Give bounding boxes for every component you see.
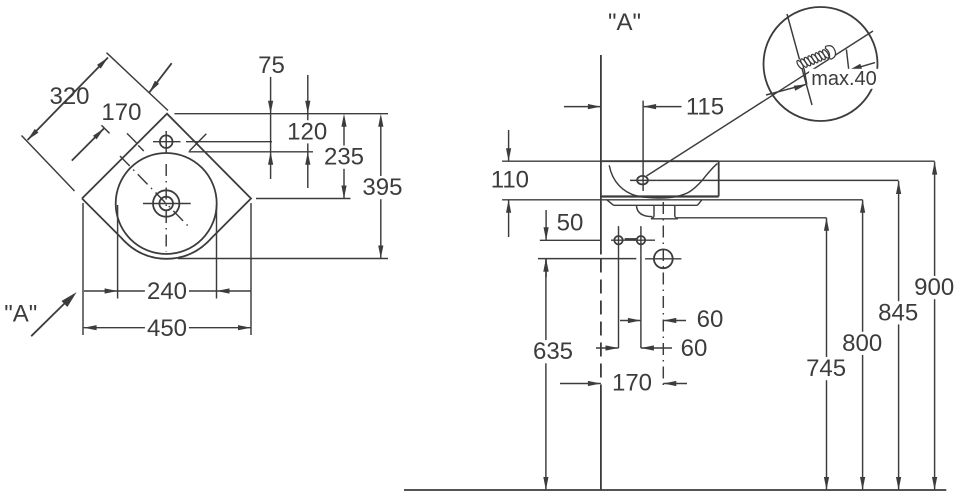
trap cover curve: [636, 205, 652, 216]
tap height reference line (y=180.4): [656, 179, 898, 181]
dimension label 320: [49, 83, 89, 110]
supply hole centerline horizontal: [645, 258, 681, 260]
floor line: [404, 489, 946, 491]
tap hole (front view): [637, 176, 648, 185]
svg-text:115: 115: [686, 93, 724, 120]
svg-text:max.40: max.40: [811, 68, 877, 90]
edge tick mark near 170 arrow: [102, 125, 110, 133]
dimension line 450 (horizontal): [84, 325, 251, 330]
dimension line max.40: [766, 63, 875, 95]
dimension label 235: [322, 144, 366, 171]
drain outer circle (plan view): [153, 190, 179, 216]
fixing hole right centerline vertical: [640, 226, 642, 254]
svg-text:635: 635: [533, 338, 573, 365]
dimension label 395: [360, 174, 404, 201]
svg-text:450: 450: [147, 315, 187, 342]
tap hole centerline vertical (front view): [642, 101, 644, 191]
tap hole centerline horizontal: [153, 141, 181, 143]
svg-text:120: 120: [287, 118, 327, 145]
svg-text:235: 235: [324, 144, 364, 171]
svg-text:75: 75: [258, 52, 285, 79]
svg-text:"A": "A": [608, 9, 641, 36]
svg-text:110: 110: [491, 167, 529, 194]
tap hole centerline vertical: [165, 131, 167, 153]
dimension line 395 (vertical): [378, 114, 383, 259]
svg-text:170: 170: [101, 99, 141, 126]
supply hole line (y=258.6): [538, 258, 636, 260]
basin front edge arc (plan view): [121, 237, 213, 259]
dimension line 170 (front view horizontal): [560, 381, 687, 386]
fixing hole left centerline vertical: [618, 226, 620, 254]
drain inner circle (plan view): [159, 197, 173, 211]
diagonal dash near tap (left): [127, 133, 144, 151]
dimension line 170 (diagonal, two arrows): [72, 63, 172, 160]
view arrow A (plan view): [31, 292, 76, 336]
dimension label 170 (front view): [610, 370, 654, 397]
dimension line 240 (horizontal): [84, 288, 251, 293]
reference line basin front (y=258.5): [178, 258, 388, 260]
mounting skirt (front view): [607, 200, 702, 206]
dimension line 115 (horizontal): [564, 104, 682, 109]
dimension line 800 (vertical): [860, 200, 865, 490]
svg-text:60: 60: [697, 306, 724, 333]
label "A" (plan view): [4, 301, 37, 328]
extension line left corner down (x=83): [82, 203, 84, 335]
svg-text:800: 800: [842, 330, 882, 357]
dimension line 900 (vertical): [932, 162, 937, 490]
reference line through tap hole (y=141.7): [186, 141, 272, 143]
dimension label 75: [256, 52, 287, 79]
extension line bowl left (x=117.6): [117, 205, 119, 299]
extension line from left fixing hole: [618, 254, 620, 348]
dimension label 120: [285, 118, 329, 145]
reference line through wall corner (y=113.7): [175, 113, 389, 115]
leader line to detail A: [647, 31, 874, 176]
basin outline (plan view, corner washbasin): [82, 114, 251, 237]
dimension line 110 (vertical): [506, 130, 511, 237]
svg-text:50: 50: [557, 209, 584, 236]
extension line screw tip: [803, 64, 807, 84]
diagonal symmetry centerline through drain: [120, 156, 190, 228]
fixing hole right (front view): [637, 236, 645, 244]
dimension line 60 upper (horizontal): [620, 318, 686, 323]
fixing hole line (y=240.3 left of wall): [540, 239, 601, 241]
svg-text:170: 170: [612, 370, 652, 397]
extension line from right fixing hole: [640, 254, 642, 348]
svg-text:745: 745: [806, 355, 846, 382]
dimension line 845 (vertical): [896, 181, 901, 490]
svg-text:240: 240: [147, 278, 187, 305]
svg-text:845: 845: [878, 299, 918, 326]
dimension line 120 (vertical): [305, 75, 310, 188]
extension line right corner down (x=251): [250, 203, 252, 335]
dimension label 635: [531, 338, 575, 365]
fixing holes centerline horizontal: [611, 238, 655, 241]
extension line bowl right (x=216.5): [216, 205, 218, 299]
dimension label 900: [912, 274, 956, 301]
svg-text:60: 60: [681, 335, 708, 362]
basin body (front view): [601, 161, 719, 196]
drain centerline horizontal: [143, 203, 191, 205]
dimension line 75 (vertical): [268, 76, 273, 179]
reference line bowl rear tangent (y=151.8): [189, 151, 313, 153]
dimension label 170: [101, 99, 141, 126]
drain centerline vertical dash-dot (front view): [662, 202, 664, 390]
svg-text:395: 395: [362, 174, 402, 201]
dimension line 320 (diagonal): [28, 58, 109, 141]
dimension label 745: [804, 355, 848, 382]
extension line from top corner (45 deg): [107, 53, 169, 111]
bowl section curve (front view): [609, 164, 717, 198]
wall line (front view): [600, 55, 602, 490]
dimension label 50: [557, 209, 584, 236]
supply hole (front view): [654, 249, 673, 268]
drain centerline vertical dash-dot: [165, 164, 167, 252]
dimension label 800: [840, 330, 884, 357]
label "A" (front view): [608, 9, 641, 36]
dimension line 745 (vertical): [824, 218, 829, 490]
dimension label 60 upper: [697, 306, 724, 333]
extension line screw head: [846, 49, 848, 70]
bowl circle (plan view): [116, 153, 217, 254]
underside line (y=199.8, extends to 800 dim): [502, 199, 862, 201]
fixing hole left (front view): [614, 236, 622, 244]
drain pipe stub: [651, 205, 678, 219]
svg-text:900: 900: [914, 274, 954, 301]
basin top rim line (extends to 900 dim): [502, 160, 934, 162]
tap hole centerline horizontal (front view): [630, 179, 656, 181]
dimension line 60 lower (horizontal): [596, 345, 672, 350]
dimension label 240: [145, 278, 189, 305]
tap hole (plan view): [160, 135, 173, 148]
wall edge line in detail: [787, 14, 812, 105]
drain line (y=217.8, extends to 745 dim): [677, 217, 827, 219]
dimension label max.40: [809, 68, 879, 90]
screw (detail A): [794, 44, 838, 73]
extension line from left corner (45 deg): [22, 136, 75, 192]
dimension label 60 lower: [679, 335, 710, 362]
detail circle A: [764, 7, 878, 121]
dimension line 235 (vertical): [341, 114, 346, 199]
dimension line 50 (vertical): [544, 210, 549, 277]
dimension label 110: [491, 167, 529, 194]
dimension label 845: [876, 299, 920, 326]
svg-text:"A": "A": [4, 301, 37, 328]
dimension label 450: [145, 315, 189, 342]
edge tick mark on right edge (tap level): [190, 134, 207, 151]
reference line through side corners (y=198.5): [256, 198, 351, 200]
dimension label 115: [686, 93, 724, 120]
svg-text:320: 320: [49, 83, 89, 110]
dimension line 635 (vertical): [543, 259, 548, 490]
